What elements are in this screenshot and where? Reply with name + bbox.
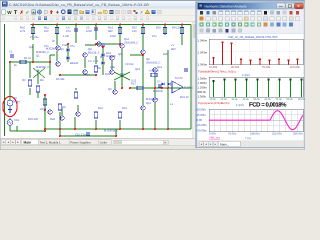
node junction — [59, 128, 61, 130]
main window background — [0, 0, 305, 150]
wire — [56, 51, 58, 61]
svg-text:47u: 47u — [70, 45, 75, 48]
svg-text:100n: 100n — [86, 30, 92, 33]
diode D5 — [162, 83, 165, 86]
svg-text:D3: D3 — [100, 56, 104, 59]
node junction — [164, 24, 166, 26]
main status bar — [0, 146, 305, 151]
app icon — [2, 2, 7, 7]
node junction — [95, 43, 97, 45]
node junction — [154, 128, 156, 130]
transistor Q12 — [153, 68, 158, 73]
svg-text:R17: R17 — [131, 83, 136, 86]
node junction — [44, 109, 46, 111]
transistor Q3 — [83, 53, 88, 58]
svg-text:MJE340_C: MJE340_C — [46, 48, 59, 51]
svg-text:70.0k: 70.0k — [276, 98, 283, 101]
wire — [95, 25, 97, 41]
sheet border right — [190, 25, 192, 130]
diode D1 — [67, 49, 70, 52]
transistor Q6 — [110, 70, 115, 75]
wire — [142, 55, 144, 105]
resistor R14 — [118, 28, 121, 34]
svg-text:47u: 47u — [152, 35, 157, 38]
analysis tab bar — [198, 141, 304, 147]
annotation ellipse (red highlight) — [3, 97, 17, 117]
AC source VG1 — [7, 120, 13, 126]
resistor R15 — [141, 28, 144, 34]
svg-text:0.00: 0.00 — [197, 118, 203, 122]
wire — [44, 95, 46, 129]
node junction — [119, 24, 121, 26]
svg-text:48V: 48V — [171, 48, 176, 51]
capacitor C7 — [158, 85, 162, 87]
resistor R10 — [31, 28, 34, 34]
svg-text:ab: ab — [98, 11, 103, 15]
svg-text:VG1: VG1 — [14, 119, 20, 122]
svg-text:Q5: Q5 — [118, 53, 122, 56]
svg-text:800.0u: 800.0u — [198, 90, 207, 94]
svg-text:Q3: Q3 — [60, 48, 64, 51]
chart panel background — [198, 34, 304, 141]
svg-text:1.346m: 1.346m — [198, 38, 208, 42]
chart2 green harmonic stems — [212, 78, 302, 97]
node junction — [59, 135, 61, 137]
svg-text:Q1: Q1 — [36, 55, 40, 58]
wire — [32, 44, 34, 62]
node junction — [56, 24, 58, 26]
svg-text:2SA1943_C: 2SA1943_C — [124, 42, 139, 45]
svg-text:50.0k: 50.0k — [254, 98, 261, 101]
wire — [95, 56, 97, 64]
wire — [167, 90, 169, 129]
toolbar row 1 icons — [2, 10, 161, 17]
wire — [59, 112, 61, 129]
wire — [154, 103, 156, 129]
svg-text:1.260m: 1.260m — [198, 85, 208, 89]
svg-text:◄: ◄ — [200, 143, 202, 146]
resistor R13 — [118, 112, 121, 118]
svg-text:R5 39k: R5 39k — [56, 78, 65, 81]
wire — [44, 129, 46, 131]
node junction — [161, 87, 163, 89]
node junction — [154, 87, 156, 89]
transistor Q4 — [83, 70, 88, 75]
svg-text:Test 2, Models 1: Test 2, Models 1 — [40, 140, 61, 144]
wire — [37, 70, 39, 84]
wire — [114, 81, 116, 89]
svg-text:C3A: C3A — [62, 44, 67, 47]
svg-text:►: ► — [17, 141, 20, 144]
node junction — [44, 128, 46, 130]
node junction — [95, 128, 97, 130]
capacitor C5 — [94, 28, 98, 30]
transistor Q1 — [56, 46, 61, 51]
svg-text:C:\MCS10\Dist.N.Balsas\Dist_cu: C:\MCS10\Dist.N.Balsas\Dist_cu_FB_Balsas… — [9, 3, 150, 7]
wire — [44, 129, 46, 131]
capacitor C4 — [74, 29, 78, 31]
svg-text:►: ► — [12, 141, 15, 144]
caption buttons — [277, 3, 304, 8]
svg-text:1.340m: 1.340m — [198, 76, 208, 80]
svg-text:BD139_C: BD139_C — [88, 52, 100, 55]
svg-text:R13: R13 — [122, 107, 127, 110]
svg-text:Q2: Q2 — [36, 70, 40, 73]
svg-text:R21 10: R21 10 — [180, 96, 189, 99]
svg-text:296.00u: 296.00u — [293, 133, 303, 136]
svg-text:Links: Links — [100, 140, 107, 144]
wire — [130, 54, 143, 56]
resistor R11 — [55, 28, 58, 34]
node junction — [102, 46, 104, 48]
diode D2 — [67, 57, 70, 60]
svg-text:Q11: Q11 — [146, 102, 151, 105]
transistor Q9 — [97, 42, 102, 47]
svg-text:►: ► — [214, 143, 216, 146]
transistor Q8 — [113, 90, 118, 95]
schematic v-scrollbar — [193, 22, 196, 139]
svg-text:Q4: Q4 — [86, 74, 90, 77]
svg-text:T (s): T (s) — [245, 136, 251, 140]
chart3 plot area — [209, 109, 303, 132]
svg-text:Tl(balta)800kHz(17kHz)_0u(3u): Tl(balta)800kHz(17kHz)_0u(3u) — [198, 70, 236, 73]
wire — [61, 108, 63, 115]
wire — [121, 49, 123, 88]
resistor R17 — [137, 86, 143, 89]
svg-text:C7: C7 — [157, 81, 161, 84]
svg-text:R9 120: R9 120 — [172, 27, 181, 30]
svg-text:►: ► — [209, 143, 211, 146]
svg-text:50.00m: 50.00m — [197, 108, 207, 112]
svg-text:500m: 500m — [13, 100, 20, 103]
resistor R4 — [36, 86, 39, 92]
wire — [95, 120, 97, 129]
+V power rail — [31, 24, 192, 26]
svg-text:25.00m: 25.00m — [197, 113, 207, 117]
analysis toolbar row 1 — [200, 11, 299, 15]
transistor Q2 — [56, 62, 61, 67]
wire — [60, 74, 96, 76]
transistor Q10 — [141, 50, 146, 55]
svg-text:W: W — [7, 10, 12, 15]
transistor Q14 — [60, 116, 65, 121]
svg-text:40.00k: 40.00k — [231, 66, 240, 69]
svg-text:R1 1k: R1 1k — [24, 57, 32, 60]
wire — [37, 92, 39, 98]
svg-text:◄: ◄ — [7, 141, 10, 144]
node junction — [142, 24, 144, 26]
svg-text:R.6Ohm: R.6Ohm — [153, 90, 164, 93]
chart2 y-axis labels — [198, 76, 208, 98]
svg-text:VM1_out: VM1_out — [209, 137, 220, 140]
wire — [85, 44, 96, 46]
svg-text:20.0k: 20.0k — [221, 98, 228, 101]
svg-text:1.2R: 1.2R — [63, 35, 69, 38]
output bus wire — [167, 50, 169, 129]
svg-text:Q5: Q5 — [108, 88, 112, 91]
svg-text:◄: ◄ — [2, 141, 5, 144]
main window title bar — [0, 0, 305, 9]
diode D4 — [102, 62, 105, 65]
svg-text:Vutl_cu_FB_Balsas_10kHz-FSD-SP: Vutl_cu_FB_Balsas_10kHz-FSD-SPF — [228, 35, 278, 39]
svg-text:30.0k: 30.0k — [232, 98, 239, 101]
wire — [10, 130, 45, 132]
wire — [32, 25, 34, 41]
wire crossing left — [33, 68, 45, 78]
svg-text:R6: R6 — [62, 106, 66, 109]
svg-text:4.7k: 4.7k — [20, 30, 26, 33]
svg-text:1.340u: 1.340u — [198, 94, 207, 98]
analysis toolbar background — [198, 10, 304, 34]
svg-text:0.22: 0.22 — [131, 80, 137, 83]
capacitor C8 — [184, 69, 188, 71]
chart2 plot area — [209, 77, 303, 97]
schematic h-scrollbar — [113, 140, 168, 145]
svg-text:+: + — [9, 101, 11, 105]
svg-text:120: 120 — [132, 30, 137, 33]
wire — [29, 88, 31, 95]
wire — [115, 129, 117, 136]
diode D3 — [102, 54, 105, 57]
resistor R18 — [151, 73, 157, 76]
svg-text:C3: C3 — [88, 60, 92, 63]
node junction — [74, 128, 76, 130]
svg-text:Tl(pu)spectru(17k)dBz(3u): Tl(pu)spectru(17k)dBz(3u) — [198, 102, 229, 105]
chart1 x-axis labels — [209, 66, 300, 69]
wire — [75, 88, 77, 90]
node junction — [115, 135, 117, 137]
node junction — [49, 61, 51, 63]
svg-text:MJ15024_C: MJ15024_C — [104, 130, 119, 133]
svg-text:R8: R8 — [97, 67, 101, 70]
wire — [164, 25, 166, 36]
wire — [49, 55, 51, 75]
node junction — [67, 43, 69, 45]
wire — [181, 25, 183, 46]
svg-text:R22: R22 — [105, 73, 110, 76]
wire — [16, 126, 18, 131]
tab nav buttons — [1, 140, 20, 145]
wire — [119, 25, 121, 45]
voltage source VS1 — [7, 97, 13, 109]
wire — [29, 62, 31, 78]
svg-text:R24: R24 — [50, 118, 55, 121]
input wire — [10, 61, 50, 63]
-V power rail — [45, 128, 191, 130]
chart1 y-axis labels — [198, 38, 208, 66]
wire — [96, 43, 120, 45]
node junction — [142, 54, 144, 56]
node junction — [95, 24, 97, 26]
main toolbar background — [0, 9, 305, 23]
schematic sheet — [0, 22, 196, 138]
svg-text:100: 100 — [44, 30, 49, 33]
svg-text:0.4Ohm: 0.4Ohm — [149, 70, 159, 73]
node junction — [119, 43, 121, 45]
svg-text:680: 680 — [108, 30, 113, 33]
capacitor C6 — [101, 44, 105, 46]
svg-text:1.300m: 1.300m — [198, 81, 208, 85]
node junction — [167, 87, 169, 89]
svg-text:Q4: Q4 — [29, 46, 33, 49]
chart3 x-axis labels — [209, 133, 303, 136]
resistor R8 — [94, 66, 97, 72]
ground — [8, 110, 12, 113]
resistor R3 — [28, 80, 31, 86]
svg-text:R4: R4 — [40, 79, 44, 82]
resistor R9 — [180, 28, 183, 34]
op-amp U1 — [172, 81, 183, 93]
transistor Q15 — [76, 112, 81, 117]
svg-text:R12: R12 — [98, 107, 103, 110]
svg-text:60.0k: 60.0k — [265, 98, 272, 101]
svg-text:F (Hz): F (Hz) — [242, 73, 250, 77]
wire — [17, 130, 45, 132]
wire — [9, 62, 11, 97]
node junction — [75, 24, 77, 26]
svg-text:100.00k: 100.00k — [290, 66, 300, 69]
svg-text:100.0k: 100.0k — [298, 98, 306, 101]
svg-text:◄: ◄ — [205, 143, 207, 146]
svg-text:TL072: TL072 — [175, 77, 183, 80]
wire — [102, 47, 104, 75]
wire — [142, 25, 144, 50]
svg-text:80.0k: 80.0k — [287, 98, 294, 101]
wire — [111, 61, 113, 69]
svg-text:C10 2.2n: C10 2.2n — [75, 133, 86, 136]
output wire — [130, 87, 191, 89]
svg-text:►: ► — [164, 142, 166, 145]
svg-text:✗: ✗ — [140, 10, 144, 15]
svg-text:74.00u: 74.00u — [228, 133, 237, 136]
node junction — [129, 87, 131, 89]
node junction — [32, 24, 34, 26]
capacitor C10 — [86, 133, 90, 135]
svg-text:R19: R19 — [120, 73, 125, 76]
chart1 red harmonic stems — [213, 41, 299, 64]
transistor Q7 — [120, 44, 125, 49]
svg-text:-25.00m: -25.00m — [197, 123, 208, 127]
resistor R6 — [58, 104, 61, 110]
svg-text:FCD = 0,0018%: FCD = 0,0018% — [249, 101, 287, 108]
svg-text:C2 22u: C2 22u — [30, 36, 39, 39]
svg-text:Main...: Main... — [220, 142, 229, 146]
analysis toolbar row 2 — [200, 17, 300, 21]
resistor R16 — [163, 28, 166, 34]
diode D6 — [168, 83, 171, 86]
wire — [9, 125, 11, 131]
wire — [50, 54, 55, 56]
svg-text:Main: Main — [24, 140, 32, 144]
wire crossing right — [114, 72, 130, 80]
analysis window frame — [196, 2, 305, 148]
svg-text:70.00k: 70.00k — [262, 66, 271, 69]
analysis toolbar row 4 — [200, 29, 242, 33]
page tabs — [21, 139, 111, 145]
window outer border — [0, 0, 305, 150]
svg-text:0.00u: 0.00u — [209, 133, 216, 136]
node junction — [44, 94, 46, 96]
svg-text:C9 15p: C9 15p — [125, 63, 134, 66]
svg-text:Power Supplies: Power Supplies — [71, 140, 92, 144]
wire — [59, 129, 61, 136]
svg-text:✓: ✓ — [25, 10, 29, 16]
node junction — [121, 87, 123, 89]
svg-text:1N4148: 1N4148 — [106, 55, 116, 58]
node junction — [9, 61, 11, 63]
schematic tab bar — [0, 139, 196, 146]
chart1 plot area — [209, 39, 303, 65]
wire — [56, 25, 58, 46]
svg-text:10.00k: 10.00k — [209, 66, 218, 69]
chart3 y-axis labels — [197, 108, 208, 133]
svg-text:✗: ✗ — [20, 10, 24, 16]
wire — [119, 120, 121, 129]
svg-text:R3: R3 — [22, 79, 26, 82]
svg-text:F (Hz): F (Hz) — [236, 103, 244, 107]
wire — [142, 111, 144, 129]
transistor Q13 — [153, 98, 158, 103]
svg-text:C1: C1 — [9, 51, 13, 54]
svg-text:Q8L: Q8L — [110, 66, 116, 69]
wire — [75, 25, 77, 44]
svg-text:222.00u: 222.00u — [272, 133, 282, 136]
transistor Q5 — [110, 56, 115, 61]
wire — [154, 73, 156, 97]
bottom loop wire — [60, 135, 116, 137]
capacitor C1 — [10, 55, 14, 57]
svg-text:Harmonic Distortion Analysis: Harmonic Distortion Analysis — [205, 5, 247, 9]
wire — [77, 105, 79, 111]
svg-text:R20: R20 — [163, 53, 168, 56]
svg-text:R16: R16 — [156, 27, 161, 30]
analysis title bar — [198, 3, 304, 9]
svg-text:Q16: Q16 — [135, 68, 141, 71]
svg-text:148.00u: 148.00u — [250, 133, 260, 136]
node junction — [119, 128, 121, 130]
svg-text:220u: 220u — [40, 108, 46, 111]
svg-text:100n: 100n — [110, 35, 116, 38]
resistor R7 — [74, 92, 77, 98]
node junction — [95, 74, 97, 76]
node junction — [59, 74, 61, 76]
svg-text:1.343m: 1.343m — [198, 50, 208, 54]
svg-text:L1: L1 — [170, 103, 173, 106]
transistor Q17 — [48, 110, 53, 115]
chart3 output sine wave — [209, 111, 303, 130]
sheet border left — [4, 24, 6, 136]
svg-text:BD140: BD140 — [70, 62, 79, 65]
transistor Q11 — [141, 106, 146, 111]
svg-text:10.0k: 10.0k — [210, 98, 217, 101]
wire — [74, 117, 76, 129]
svg-text:40.0k: 40.0k — [243, 98, 250, 101]
node junction — [32, 61, 34, 63]
svg-text:1.340m: 1.340m — [198, 62, 208, 66]
wire — [84, 58, 86, 68]
svg-text:+V: +V — [171, 44, 175, 47]
svg-text:MJL21196: MJL21196 — [146, 98, 159, 101]
svg-text:47u: 47u — [66, 30, 71, 33]
svg-text:-50.00m: -50.00m — [197, 128, 208, 132]
toolbar row 2 icons — [2, 16, 149, 19]
svg-text:2SA1943_C: 2SA1943_C — [146, 62, 161, 65]
chart2 x-axis labels — [210, 98, 306, 101]
node junction — [44, 130, 46, 132]
node junction — [142, 128, 144, 130]
wire — [9, 118, 11, 120]
svg-text:2.2k: 2.2k — [93, 60, 99, 63]
